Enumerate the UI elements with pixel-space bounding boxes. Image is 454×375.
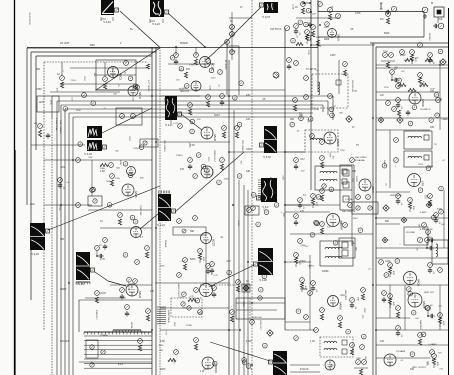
svg-text:1.5K: 1.5K bbox=[180, 261, 185, 263]
res s2d bbox=[320, 228, 323, 234]
circ if2 bbox=[318, 2, 323, 7]
wire right h345 bbox=[376, 344, 448, 346]
wire mid bus1 bbox=[285, 211, 330, 213]
wire snd h2 bbox=[376, 129, 430, 131]
yoke pictorial T8 bbox=[76, 252, 95, 280]
circ mix3 bbox=[218, 70, 223, 75]
component cluster bm a bbox=[206, 264, 212, 276]
circ ch7 bbox=[177, 273, 182, 278]
wire rm h1 bbox=[376, 217, 448, 219]
circled ref 50 bbox=[242, 358, 247, 363]
circled ref 72 bbox=[315, 221, 320, 226]
wire r h1 bbox=[376, 67, 448, 69]
svg-text:470: 470 bbox=[180, 168, 185, 171]
circled ref 30 bbox=[290, 122, 295, 127]
svg-text:2.7K: 2.7K bbox=[165, 330, 167, 335]
svg-text:4.5MC: 4.5MC bbox=[420, 212, 427, 214]
circ mix2 bbox=[194, 53, 199, 58]
res aud2 bbox=[320, 314, 323, 320]
coil ifcan3 a bbox=[320, 171, 337, 173]
circled ref 44 bbox=[296, 309, 301, 314]
svg-text:PHASE: PHASE bbox=[164, 240, 167, 248]
circled ref 47 bbox=[263, 343, 268, 348]
circ bm box1 bbox=[181, 302, 185, 306]
wire mid v350 bbox=[351, 190, 353, 246]
res if3f bbox=[316, 40, 319, 46]
wire bm h365 bbox=[290, 364, 320, 366]
wire if h2 bbox=[229, 17, 252, 19]
junction dot 5 bbox=[247, 261, 249, 263]
wire bm h372 bbox=[290, 371, 320, 373]
wire r h2 bbox=[376, 99, 440, 101]
circ aud4 bbox=[314, 328, 319, 333]
circled ref 2 bbox=[135, 85, 140, 90]
mid vertical D bbox=[243, 185, 245, 375]
tube V19 sound det bbox=[408, 174, 425, 187]
res vid1 bbox=[188, 109, 191, 115]
wire y45 right bbox=[311, 44, 375, 46]
yoke pictorial T6 bbox=[158, 194, 176, 221]
svg-text:18K: 18K bbox=[93, 73, 95, 77]
wire video bus y152 bbox=[230, 151, 305, 153]
circ topif c bbox=[328, 8, 333, 13]
circ ho3 bbox=[258, 296, 262, 300]
diamond test sdet2 bbox=[401, 217, 407, 223]
wire diagonal T2 to mixer bbox=[168, 13, 205, 47]
svg-text:330K: 330K bbox=[300, 245, 306, 247]
svg-text:56K: 56K bbox=[355, 247, 357, 251]
svg-text:ON-OFF: ON-OFF bbox=[60, 340, 70, 343]
wire snd bus2 bbox=[376, 91, 440, 93]
circled ref 62 bbox=[274, 203, 279, 208]
wire rm h2 bbox=[376, 247, 448, 249]
svg-text:100K: 100K bbox=[292, 4, 294, 10]
svg-text:10K: 10K bbox=[430, 126, 435, 129]
svg-text:47K: 47K bbox=[436, 362, 438, 366]
wire tuner h84 bbox=[60, 83, 136, 85]
circled ref 14 bbox=[291, 38, 296, 43]
circ top1 bbox=[391, 6, 396, 11]
svg-text:MIXER: MIXER bbox=[180, 42, 188, 45]
agc run 5 bbox=[65, 108, 318, 110]
junction dot 26 bbox=[228, 329, 230, 331]
svg-text:2200: 2200 bbox=[128, 136, 130, 142]
circled ref 67 bbox=[128, 173, 133, 178]
svg-text:47K: 47K bbox=[392, 302, 394, 306]
circ rm1 bbox=[428, 194, 433, 199]
svg-text:135V: 135V bbox=[330, 54, 336, 57]
yoke pictorial T9 bbox=[260, 126, 278, 153]
control box B bbox=[339, 238, 355, 258]
svg-text:.0047: .0047 bbox=[111, 67, 113, 73]
switch box left bbox=[78, 300, 80, 332]
circled ref 22 bbox=[429, 118, 434, 123]
coil takeoff 1 bbox=[324, 341, 337, 343]
circ ch2 bbox=[193, 216, 198, 221]
circled ref 28 bbox=[193, 174, 198, 179]
svg-text:½ 2-25: ½ 2-25 bbox=[76, 282, 84, 286]
wire snd v1 bbox=[389, 130, 391, 188]
wire top bus bbox=[318, 11, 424, 13]
sq ifcan3 1 bbox=[342, 169, 347, 174]
tube V5 2nd IF bbox=[324, 132, 340, 146]
circ r7 bbox=[396, 84, 401, 89]
tube V16 vert out bbox=[408, 293, 426, 309]
component cluster topif a bbox=[294, 24, 300, 36]
circ ch1 bbox=[177, 219, 182, 224]
circled ref 42 bbox=[418, 188, 423, 193]
circ syn2 bbox=[110, 174, 115, 179]
svg-text:3RD VIDEO IF: 3RD VIDEO IF bbox=[342, 211, 356, 213]
svg-text:2200: 2200 bbox=[115, 178, 121, 180]
circ bm2 bbox=[212, 286, 217, 291]
yoke pictorial T7 bbox=[30, 223, 50, 250]
svg-text:1500: 1500 bbox=[300, 260, 306, 263]
junction dot 4 bbox=[232, 204, 234, 206]
res t4 bbox=[38, 130, 41, 137]
res syn5 bbox=[118, 219, 121, 225]
svg-text:6AW8: 6AW8 bbox=[339, 302, 343, 310]
svg-text:68K: 68K bbox=[89, 157, 93, 159]
svg-text:265V: 265V bbox=[400, 54, 406, 57]
svg-text:VHF: VHF bbox=[49, 100, 52, 105]
bus vertical V1 bbox=[151, 47, 153, 375]
yoke pictorial T10 bbox=[257, 178, 278, 202]
res tuner2 bbox=[103, 83, 106, 89]
junction dot 27 bbox=[251, 364, 253, 366]
res sw3 bbox=[138, 345, 141, 351]
svg-text:½ 2-11: ½ 2-11 bbox=[165, 123, 173, 127]
circ top3 bbox=[438, 23, 444, 29]
switch rows bbox=[84, 336, 152, 368]
hor osc inner dashed2 bbox=[249, 298, 251, 319]
cable bundle vertical 2 bbox=[56, 122, 58, 375]
wire t3 v232 bbox=[231, 12, 233, 60]
svg-text:RF UNIT: RF UNIT bbox=[60, 42, 70, 45]
svg-text:1.2K: 1.2K bbox=[310, 340, 315, 343]
yoke pictorial T12 bbox=[269, 351, 288, 375]
svg-text:1000: 1000 bbox=[174, 102, 176, 108]
circled ref 36 bbox=[432, 215, 437, 220]
svg-text:HOR OUT: HOR OUT bbox=[259, 320, 261, 331]
wire brx h358 bbox=[376, 357, 430, 359]
wire brx v390 bbox=[389, 285, 391, 318]
svg-text:VOL: VOL bbox=[438, 18, 443, 21]
vres bank bbox=[157, 307, 166, 324]
ifcan3 box bbox=[315, 166, 352, 190]
border right edge bbox=[448, 8, 450, 375]
svg-text:2200: 2200 bbox=[340, 150, 346, 152]
mid vertical C bbox=[238, 180, 240, 375]
box syn bbox=[88, 196, 102, 206]
circ syn3 bbox=[90, 188, 95, 193]
agc corner 4 bbox=[60, 105, 62, 126]
circ top0 bbox=[422, 7, 428, 13]
wire tuner v2 bbox=[104, 62, 106, 76]
res br1 bbox=[361, 294, 364, 300]
circ tuner2 bbox=[103, 77, 108, 82]
circ r2 bbox=[418, 43, 423, 48]
component cluster rm x1 bbox=[434, 213, 440, 225]
circled ref 27 bbox=[217, 180, 222, 185]
circled ref 39 bbox=[384, 273, 389, 278]
bus vertical V3 dashed bbox=[159, 47, 161, 375]
diamond test r4 bbox=[440, 59, 446, 65]
cap br2 bbox=[382, 297, 386, 303]
svg-text:1 MEG: 1 MEG bbox=[176, 155, 183, 157]
svg-text:1 MEG: 1 MEG bbox=[420, 228, 428, 231]
cap if2 bbox=[287, 64, 291, 70]
junction dot 13 bbox=[60, 204, 62, 206]
component cluster br x6 bbox=[354, 358, 368, 375]
tube V3 mixer bbox=[200, 57, 215, 71]
coilbox rm3 bbox=[432, 240, 448, 264]
wire T5 lead bbox=[170, 120, 172, 124]
wire diag ch to T11 bbox=[209, 265, 254, 287]
cable bundle vertical 3 bbox=[60, 126, 62, 375]
svg-text:HORIZ DRIVE: HORIZ DRIVE bbox=[167, 310, 169, 324]
circled ref 1 bbox=[133, 84, 138, 89]
circ aud1 bbox=[308, 291, 313, 296]
agc run 1 bbox=[95, 89, 285, 91]
circ s2i bbox=[356, 206, 360, 210]
component cluster mid a bbox=[298, 198, 304, 210]
component cluster snd c bbox=[428, 53, 434, 65]
res if5 bbox=[343, 70, 346, 76]
circ sw2 bbox=[101, 350, 105, 354]
junction dot 25 bbox=[317, 44, 319, 46]
circ t3c bbox=[230, 50, 235, 55]
res bm8h bbox=[168, 358, 176, 361]
component cluster aud a bbox=[388, 263, 394, 277]
svg-text:18K: 18K bbox=[418, 224, 420, 228]
svg-text:2200: 2200 bbox=[71, 80, 77, 82]
mid vertical H bbox=[310, 0, 312, 190]
svg-text:VERT OUTPUT: VERT OUTPUT bbox=[412, 367, 427, 369]
circ bm8 bbox=[174, 350, 179, 355]
svg-text:VOLUME: VOLUME bbox=[406, 232, 415, 234]
circ s3c bbox=[379, 260, 384, 265]
svg-text:SYNC: SYNC bbox=[186, 325, 192, 327]
junction dot 20 bbox=[375, 329, 377, 331]
circled ref 49 bbox=[242, 360, 247, 365]
wire ch v206 bbox=[205, 244, 207, 283]
svg-text:47K: 47K bbox=[202, 257, 204, 261]
circled ref 24 bbox=[190, 129, 195, 134]
wire audio h bbox=[285, 329, 315, 331]
circled ref 70 bbox=[91, 187, 96, 192]
agc right corner 2 bbox=[332, 96, 334, 120]
svg-text:10K: 10K bbox=[426, 361, 428, 365]
svg-text:22K: 22K bbox=[150, 290, 155, 293]
circled ref 13 bbox=[304, 22, 309, 27]
cap if1 bbox=[308, 22, 312, 28]
circ ch8 bbox=[183, 258, 188, 263]
circ r1 bbox=[386, 12, 391, 17]
circ if1 bbox=[301, 2, 306, 7]
component cluster sdet a bbox=[396, 194, 402, 206]
circ 2if5 bbox=[320, 156, 325, 161]
component cluster mid b bbox=[311, 194, 317, 208]
svg-text:CONT: CONT bbox=[355, 176, 357, 183]
svg-text:6AQ5: 6AQ5 bbox=[417, 279, 421, 287]
res br4 bbox=[418, 339, 421, 345]
agc corner 2 bbox=[51, 96, 53, 118]
res mix2 bbox=[194, 59, 197, 65]
svg-text:M: M bbox=[431, 2, 433, 5]
wire vid h1 bbox=[160, 95, 200, 97]
svg-text:820K: 820K bbox=[190, 258, 196, 261]
component cluster sdet b bbox=[408, 198, 414, 212]
svg-text:HV: HV bbox=[34, 123, 38, 125]
wire rm v444 bbox=[443, 190, 445, 248]
component cluster aud b bbox=[428, 263, 434, 275]
circ br5 bbox=[430, 350, 435, 355]
coil s3a bbox=[325, 247, 342, 249]
svg-text:330K: 330K bbox=[198, 313, 204, 315]
sound vertical K bbox=[375, 47, 377, 375]
svg-text:SYNC: SYNC bbox=[237, 220, 239, 226]
circ agc1 bbox=[95, 291, 100, 296]
component cluster snd a bbox=[381, 51, 395, 68]
res snd f bbox=[398, 83, 406, 86]
sound can A bbox=[404, 131, 432, 149]
circ if6 bbox=[287, 58, 292, 63]
component cluster br x5 bbox=[438, 313, 444, 327]
circ rm2 bbox=[422, 223, 427, 228]
junction dot 28 bbox=[72, 159, 74, 161]
svg-text:56K: 56K bbox=[106, 181, 110, 183]
control sq B1 bbox=[342, 242, 348, 248]
tuner box line 3 top bbox=[36, 55, 152, 57]
coil sound B bbox=[408, 156, 422, 158]
control sq A2 bbox=[343, 182, 349, 188]
mid vertical B bbox=[233, 110, 235, 375]
circ mid d bbox=[348, 203, 353, 208]
circ hatched bbox=[273, 72, 279, 79]
svg-text:AT 40 MC: AT 40 MC bbox=[224, 60, 227, 70]
circled ref 54 bbox=[411, 310, 416, 315]
cable bundle vertical 4 bbox=[64, 130, 66, 375]
sq 1st IF big bbox=[336, 80, 341, 85]
svg-text:330K: 330K bbox=[179, 89, 185, 91]
circled ref 8 bbox=[206, 59, 211, 64]
circled ref 34 bbox=[330, 113, 335, 118]
junction dot 1 bbox=[151, 95, 153, 97]
tube V9 sync bbox=[201, 166, 213, 178]
circled ref 75 bbox=[310, 233, 315, 238]
cap syn6 bbox=[103, 244, 107, 250]
svg-text:150K: 150K bbox=[209, 85, 211, 91]
component cluster ch5 bbox=[198, 249, 204, 263]
svg-text:2200: 2200 bbox=[178, 297, 184, 299]
white marks T2 bbox=[153, 1, 161, 16]
wire diag T6 bbox=[175, 152, 244, 212]
tube V15 bbox=[202, 357, 218, 373]
wire bm h2 bbox=[160, 329, 238, 331]
circled ref 46 bbox=[246, 364, 251, 369]
wire sw h bbox=[79, 361, 152, 363]
wire aud y322 bbox=[285, 321, 310, 323]
circled ref 33 bbox=[308, 117, 313, 122]
circled ref 52 bbox=[362, 334, 367, 339]
box agc tall left bbox=[226, 42, 228, 95]
svg-text:150K: 150K bbox=[403, 60, 409, 62]
svg-text:330K: 330K bbox=[160, 266, 166, 268]
circ lft d bbox=[76, 203, 81, 208]
sound vertical J bbox=[372, 43, 374, 375]
circ osc2 bbox=[131, 114, 136, 119]
svg-text:.0047: .0047 bbox=[323, 27, 329, 29]
tube V1 RF amp bbox=[108, 67, 123, 81]
svg-text:2-13: 2-13 bbox=[118, 363, 123, 366]
dot if y3 bbox=[309, 2, 311, 4]
circ sw4 bbox=[138, 339, 143, 344]
wire br v1 bbox=[439, 285, 441, 330]
svg-text:270: 270 bbox=[300, 210, 305, 213]
svg-text:4.7K: 4.7K bbox=[317, 46, 322, 48]
circ agc4 bbox=[133, 279, 138, 284]
svg-text:68K: 68K bbox=[356, 297, 358, 301]
svg-text:1000: 1000 bbox=[207, 157, 209, 163]
circled ref 79 bbox=[239, 81, 244, 86]
circled ref 61 bbox=[251, 193, 256, 198]
svg-text:6.8K: 6.8K bbox=[160, 340, 165, 343]
svg-text:SOUND IF: SOUND IF bbox=[420, 109, 431, 111]
circ bm3 bbox=[236, 280, 241, 285]
circled ref 57 bbox=[346, 329, 351, 334]
circ agc2 bbox=[125, 305, 130, 310]
wire syn h1 bbox=[88, 209, 152, 211]
circ kine bbox=[143, 141, 147, 145]
tuner box line 3 left bbox=[35, 56, 37, 150]
sound can B bbox=[404, 151, 432, 167]
wire diagonal T3 to amp bbox=[228, 7, 261, 40]
tube V6 sound IF bbox=[409, 92, 425, 107]
junction dot 15 bbox=[155, 227, 157, 229]
svg-text:6CG7: 6CG7 bbox=[212, 239, 216, 247]
svg-text:2.7K: 2.7K bbox=[441, 119, 446, 121]
circled ref 21 bbox=[412, 105, 417, 110]
control sq B2 bbox=[342, 250, 348, 256]
circ snd5 bbox=[394, 158, 399, 163]
svg-text:12AU7A: 12AU7A bbox=[127, 282, 130, 291]
circ tuner3 bbox=[82, 93, 87, 98]
circled ref 86 bbox=[133, 219, 138, 224]
circled ref 16 bbox=[438, 49, 443, 54]
ground top0 bbox=[423, 14, 427, 18]
circ t3a bbox=[230, 25, 235, 30]
yoke pictorial T4a bbox=[87, 126, 102, 138]
svg-text:.047: .047 bbox=[300, 158, 305, 161]
tube V22 hor osc bbox=[200, 284, 213, 297]
box ch3 bbox=[173, 227, 206, 235]
circ bm0 bbox=[135, 260, 140, 265]
svg-text:100: 100 bbox=[380, 340, 385, 343]
component cluster snd b bbox=[410, 50, 416, 64]
circled ref 51 bbox=[213, 361, 218, 366]
svg-text:270K: 270K bbox=[355, 12, 361, 15]
circ bm box2 bbox=[187, 306, 191, 310]
svg-text:56K: 56K bbox=[308, 264, 310, 268]
circ 2if4 bbox=[320, 140, 325, 145]
svg-text:.0047: .0047 bbox=[431, 356, 433, 362]
box kine bbox=[140, 139, 158, 147]
wire t4 h bbox=[31, 144, 85, 146]
svg-text:FINE TUNING: FINE TUNING bbox=[59, 120, 61, 134]
circ sw5 bbox=[90, 363, 94, 367]
circled ref 31 bbox=[329, 107, 334, 112]
